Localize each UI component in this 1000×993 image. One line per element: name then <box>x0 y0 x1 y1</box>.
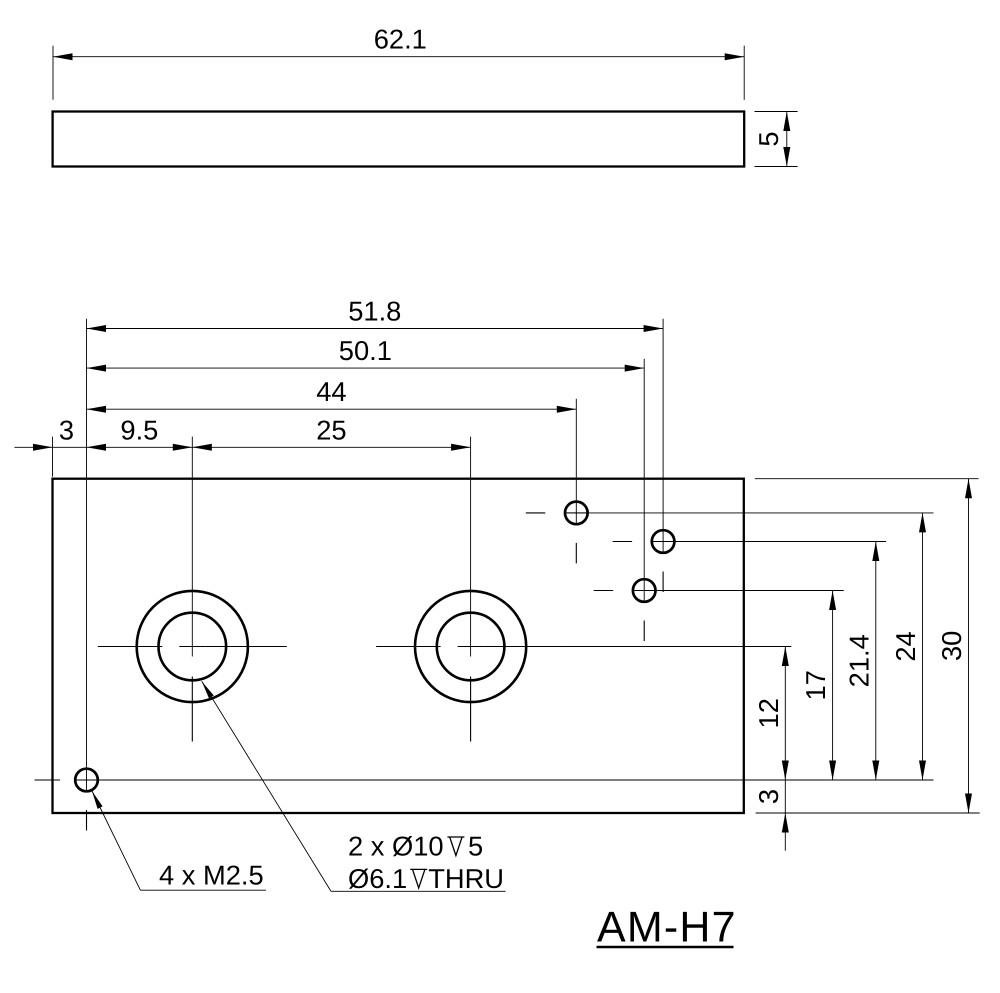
centerline bottom-left hole tick <box>75 779 99 781</box>
dim 44 text <box>316 376 346 407</box>
counterbore hole 1 inner circle <box>159 613 227 681</box>
dim 24 arrow up <box>919 513 926 533</box>
ext/centerline big hole 2 vertical <box>470 437 472 657</box>
svg-text:9.5: 9.5 <box>120 414 158 445</box>
counterbore hole 1 outer circle <box>137 591 248 702</box>
centerline bottom-left hole horizontal dash <box>35 779 61 781</box>
svg-text:THRU: THRU <box>428 863 504 894</box>
counterbore hole 2 outer circle <box>415 591 526 702</box>
leader counterbore note <box>202 681 331 891</box>
svg-text:30: 30 <box>936 631 967 661</box>
dim 12 text <box>753 698 784 728</box>
dim 30 arrow up <box>965 479 972 499</box>
note counterbore line2 depth symbol <box>410 869 427 888</box>
svg-text:50.1: 50.1 <box>339 335 392 366</box>
note counterbore line2 THRU text <box>428 863 504 894</box>
svg-text:2 x Ø10: 2 x Ø10 <box>348 831 444 862</box>
dim 9.5 arrow left <box>87 444 107 451</box>
dim 51.8 arrow left <box>87 325 107 332</box>
dim 17 arrow up <box>829 591 836 611</box>
dim 50.1 arrow right <box>625 365 645 372</box>
dim 30 line <box>968 479 970 813</box>
dim 17 arrow down <box>829 761 836 781</box>
centerline dash below small hole A <box>575 543 577 564</box>
svg-text:62.1: 62.1 <box>374 24 427 55</box>
svg-text:12: 12 <box>753 698 784 728</box>
centerline small hole A left dash <box>526 512 546 514</box>
centerline small hole C left dash <box>594 590 614 592</box>
dim 62.1 extension line right <box>743 46 745 100</box>
ext line top edge right <box>755 478 979 480</box>
note 4 x M2.5 text <box>159 860 264 891</box>
ext line y=21.4 from hole B <box>653 541 886 543</box>
svg-text:25: 25 <box>316 414 346 445</box>
note counterbore underline <box>331 890 506 892</box>
dim 30 arrow down <box>965 794 972 814</box>
ext line part left edge <box>52 437 54 477</box>
dim 17 line <box>832 591 834 781</box>
centerline big hole 1 tick <box>179 646 205 648</box>
dim 21.4 arrow up <box>872 542 879 562</box>
dim 3 right text <box>753 789 784 804</box>
dim 51.8 text <box>348 296 401 327</box>
centerline dash below small hole B <box>662 572 664 593</box>
dim 30 text <box>936 631 967 661</box>
dim 3 outside arrow left <box>33 444 53 451</box>
dim 5 extension line bottom <box>755 166 798 168</box>
note counterbore line1 depth symbol <box>447 837 464 856</box>
dim 21.4 text <box>843 634 874 687</box>
tapped hole M2.5 bottom-left <box>75 769 98 792</box>
note 4 x M2.5 underline <box>140 889 266 891</box>
dim 5 line <box>786 112 788 167</box>
dim 12 arrow down <box>782 761 789 781</box>
svg-text:Ø6.1: Ø6.1 <box>348 863 407 894</box>
centerline small hole B left dash <box>613 541 633 543</box>
svg-text:5: 5 <box>753 131 784 146</box>
dim 44 line <box>87 408 577 410</box>
centerline dash below big hole 1 <box>191 677 193 742</box>
svg-text:24: 24 <box>890 631 921 661</box>
tapped hole M2.5 C <box>633 579 656 602</box>
centerline big hole 2 horizontal left dash <box>376 646 441 648</box>
svg-text:3: 3 <box>753 789 784 804</box>
dim 50.1 arrow left <box>87 365 107 372</box>
dim 62.1 text <box>374 24 427 55</box>
svg-text:5: 5 <box>468 831 483 862</box>
main view plate outline <box>53 479 744 813</box>
dim 21.4 line <box>875 542 877 781</box>
svg-text:17: 17 <box>800 670 831 700</box>
dim 12 line <box>784 647 786 781</box>
svg-text:AM-H7: AM-H7 <box>597 903 737 951</box>
svg-text:44: 44 <box>316 376 346 407</box>
dim 3 right line with tail <box>784 780 786 851</box>
svg-text:21.4: 21.4 <box>843 634 874 687</box>
dim 5 extension line top <box>755 111 798 113</box>
centerline dash below small hole C <box>643 621 645 642</box>
tapped hole M2.5 A <box>565 502 588 525</box>
dim 5 arrow up <box>783 112 790 132</box>
centerline small hole A tick <box>566 512 586 514</box>
dim 44 arrow right <box>557 406 577 413</box>
centerline dash below big hole 2 <box>470 677 472 742</box>
ext/centerline small hole A vertical <box>575 399 577 523</box>
title AM-H7 underline <box>597 946 734 948</box>
dim 51.8 line <box>87 328 664 330</box>
dim 62.1 arrow left <box>53 53 73 60</box>
dim 3/9.5/25 shared line <box>14 446 470 448</box>
dim 17 text <box>800 670 831 700</box>
dim 21.4 arrow down <box>872 761 879 781</box>
dim 51.8 arrow right <box>644 325 664 332</box>
dim 25 text <box>316 414 346 445</box>
dim 9.5 text <box>120 414 158 445</box>
tapped hole M2.5 B <box>652 530 675 553</box>
dim 50.1 line <box>87 367 645 369</box>
ext line y=17 from hole C <box>634 590 844 592</box>
dim 3 text <box>59 414 74 445</box>
base ext line y=3 to right dims <box>75 779 934 781</box>
dim 24 line <box>922 513 924 780</box>
dim 9.5 arrow right <box>173 444 193 451</box>
dim 50.1 text <box>339 335 392 366</box>
centerline small hole C tick <box>634 590 654 592</box>
ext line y=24 from hole A <box>566 512 933 514</box>
dim 5 arrow down <box>783 147 790 167</box>
dim 5 text <box>753 131 784 146</box>
note counterbore line1 text <box>348 831 444 862</box>
centerline big hole 1 horizontal left dash <box>98 646 163 648</box>
ext line y=12 from big hole 2 to dim <box>565 646 791 648</box>
dim 44 arrow left <box>87 406 107 413</box>
centerline big hole 2 tick <box>458 646 484 648</box>
dim 25 arrow right <box>451 444 471 451</box>
dim 24 text <box>890 631 921 661</box>
svg-text:4 x M2.5: 4 x M2.5 <box>159 860 264 891</box>
top view plate outline <box>53 112 745 167</box>
dim 12 arrow up <box>782 647 789 667</box>
ext line bottom edge right <box>756 812 980 814</box>
centerline big hole 1 horizontal right dash <box>205 646 286 648</box>
note counterbore line2 text <box>348 863 407 894</box>
counterbore hole 2 inner circle <box>437 613 505 681</box>
svg-text:3: 3 <box>59 414 74 445</box>
dim 24 arrow down <box>919 761 926 781</box>
centerline dash below bottom-left hole <box>86 810 88 831</box>
ext/centerline small hole B vertical <box>662 319 664 552</box>
dim 25 arrow left <box>192 444 212 451</box>
title AM-H7 text <box>597 903 737 951</box>
dim 62.1 arrow right <box>725 53 745 60</box>
dim 62.1 extension line left <box>52 46 54 100</box>
ext/centerline big hole 1 vertical <box>191 437 193 657</box>
centerline big hole 2 horizontal right dash <box>484 646 565 648</box>
dim 62.1 line <box>53 56 744 58</box>
dim 3 right outside arrow <box>782 813 789 833</box>
centerline small hole B tick <box>653 541 673 543</box>
ext/centerline small hole C vertical <box>643 359 645 601</box>
ext/centerline datum x=3 vertical <box>86 319 88 790</box>
svg-text:51.8: 51.8 <box>348 296 401 327</box>
note counterbore line1 depth value <box>468 831 483 862</box>
leader 4 x M2.5 <box>92 791 140 890</box>
